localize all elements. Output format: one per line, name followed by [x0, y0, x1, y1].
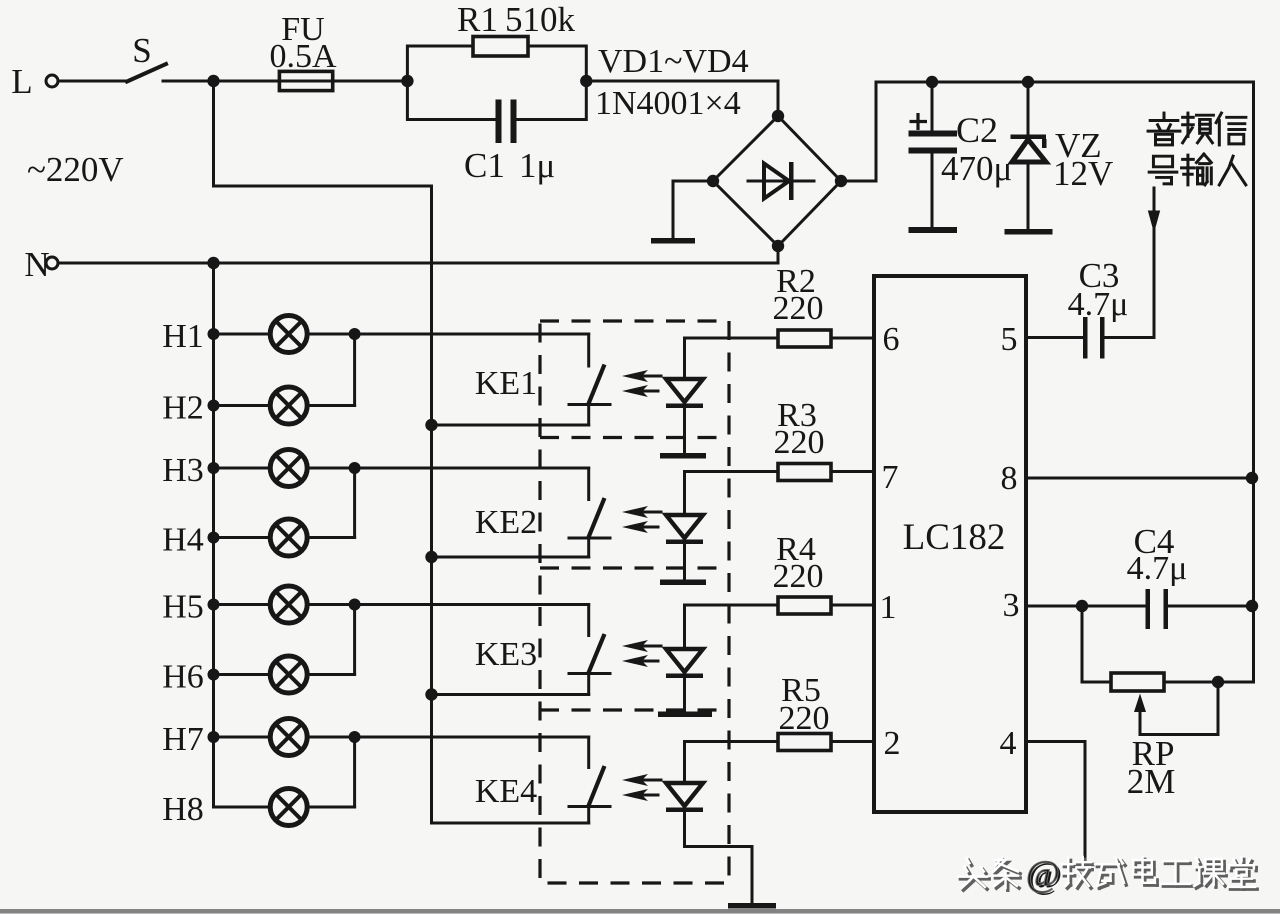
wire bridge right to top rail — [841, 82, 1254, 181]
node A junction — [207, 75, 219, 87]
ground at bridge left — [651, 181, 713, 244]
svg-text:C1: C1 — [464, 146, 505, 185]
svg-text:6: 6 — [883, 321, 900, 358]
resistor R3 220 — [685, 397, 875, 481]
lamp H1 — [162, 316, 354, 356]
svg-text:470μ: 470μ — [941, 149, 1012, 188]
svg-text:H2: H2 — [162, 390, 204, 427]
svg-text:2M: 2M — [1127, 762, 1176, 801]
svg-text:S: S — [132, 31, 151, 70]
audio input wire with arrow — [1148, 188, 1160, 338]
svg-text:C2: C2 — [956, 110, 998, 150]
resistor R1 510k — [407, 0, 586, 81]
node C junction — [580, 75, 592, 87]
wire node C to bridge top — [586, 81, 778, 116]
svg-text:~220V: ~220V — [27, 150, 124, 189]
opto LED VL1 — [622, 338, 706, 459]
svg-text:H1: H1 — [162, 318, 204, 355]
resistor R2 220 — [685, 263, 875, 347]
capacitor C3 4.7u — [1026, 256, 1154, 359]
svg-text:H3: H3 — [162, 452, 204, 489]
lamp H5 — [162, 586, 354, 626]
label audio signal input (CJK) — [1148, 113, 1246, 185]
svg-text:R1: R1 — [457, 0, 498, 39]
svg-text:N: N — [24, 245, 49, 284]
svg-text:H8: H8 — [162, 791, 204, 828]
dashed separator 3 — [540, 708, 729, 711]
node L terminal — [11, 62, 58, 101]
svg-text:L: L — [11, 62, 32, 101]
svg-text:3: 3 — [1003, 587, 1020, 624]
svg-text:220: 220 — [774, 424, 825, 461]
svg-text:4.7μ: 4.7μ — [1068, 286, 1129, 323]
op-amp U1 LC182 IC box — [874, 276, 1026, 812]
svg-text:KE1: KE1 — [475, 365, 537, 402]
wire pin 4 down — [1026, 742, 1085, 859]
resistor R4 220 — [685, 531, 875, 614]
capacitor C2 470u — [909, 76, 1013, 227]
svg-text:12V: 12V — [1053, 154, 1113, 193]
svg-text:VD1~VD4: VD1~VD4 — [598, 43, 749, 80]
opto LED VL2 — [622, 472, 706, 586]
relay contact KE1 — [355, 334, 610, 431]
watermark toutiao — [958, 854, 1257, 897]
svg-text:H4: H4 — [162, 522, 204, 559]
svg-text:7: 7 — [882, 459, 899, 496]
dashed separator 1 — [540, 436, 729, 439]
svg-text:8: 8 — [1001, 460, 1018, 497]
wire lamp pair H3/H4 link — [349, 462, 361, 538]
relay contact KE3 — [355, 605, 610, 701]
lamp H3 — [162, 450, 354, 490]
node B junction — [401, 75, 413, 87]
wire node A to fuse to node B — [214, 80, 408, 83]
wire lamp pair H5/H6 link — [349, 599, 361, 675]
svg-text:KE3: KE3 — [475, 636, 537, 673]
lamp H2 — [162, 387, 354, 427]
resistor R5 220 — [685, 672, 875, 751]
svg-text:@: @ — [1026, 854, 1060, 895]
ground at LED4 cathode — [728, 903, 776, 909]
opto LED VL3 — [622, 605, 712, 717]
svg-text:1: 1 — [880, 589, 897, 626]
wire lamp bus from N junction down — [212, 263, 215, 807]
wire pin 8 to right rail — [1026, 472, 1258, 484]
wire switch to node A — [163, 80, 214, 83]
wire bridge bottom to N line — [59, 246, 778, 263]
svg-text:510k: 510k — [505, 0, 576, 39]
svg-text:220: 220 — [779, 700, 830, 737]
wire lamp pair H1/H2 link — [349, 328, 361, 406]
svg-text:KE2: KE2 — [475, 504, 537, 541]
wire hot bus from node A — [214, 81, 432, 823]
svg-text:1μ: 1μ — [519, 146, 555, 185]
lamp H6 — [162, 656, 354, 696]
dashed separator 2 — [540, 566, 729, 569]
ground bar under C2 — [909, 227, 958, 233]
ground bar under VZ — [1005, 229, 1053, 235]
svg-text:H6: H6 — [162, 659, 204, 696]
bridge rectifier VD1-VD4 diamond — [707, 110, 847, 252]
capacitor C4 4.7u — [1127, 522, 1259, 629]
wire L to switch — [59, 80, 127, 83]
SSR module dashed box — [540, 321, 729, 883]
junction N line to lamp bus — [207, 257, 219, 269]
switch S — [127, 31, 166, 82]
relay contact KE4 — [355, 737, 610, 823]
svg-text:1N4001×4: 1N4001×4 — [595, 85, 741, 122]
potentiometer RP 2M — [1082, 606, 1254, 801]
svg-text:220: 220 — [773, 558, 824, 595]
svg-text:H7: H7 — [162, 721, 204, 758]
fuse FU 0.5A — [269, 11, 337, 91]
lamp H8 — [162, 789, 354, 829]
svg-text:2: 2 — [884, 725, 901, 762]
svg-text:KE4: KE4 — [475, 773, 537, 810]
lamp H4 — [162, 519, 354, 559]
node N terminal — [24, 245, 58, 284]
svg-text:H5: H5 — [162, 589, 204, 626]
wire lamp pair H7/H8 link — [349, 731, 361, 807]
svg-text:0.5A: 0.5A — [269, 38, 337, 75]
svg-text:LC182: LC182 — [903, 517, 1006, 558]
svg-text:4.7μ: 4.7μ — [1127, 550, 1188, 587]
svg-text:4: 4 — [1000, 725, 1017, 762]
capacitor C1 1u — [407, 81, 586, 185]
relay contact KE2 — [355, 468, 610, 563]
svg-text:5: 5 — [1001, 321, 1018, 358]
zener diode VZ 12V — [1011, 76, 1114, 229]
bottom grey strip — [0, 909, 1280, 914]
lamp H7 — [162, 719, 354, 759]
svg-text:220: 220 — [773, 290, 824, 327]
wire pin 3 to C4 — [1026, 600, 1146, 612]
wire right vertical rail — [1252, 82, 1255, 682]
opto LED VL4 — [622, 742, 752, 904]
